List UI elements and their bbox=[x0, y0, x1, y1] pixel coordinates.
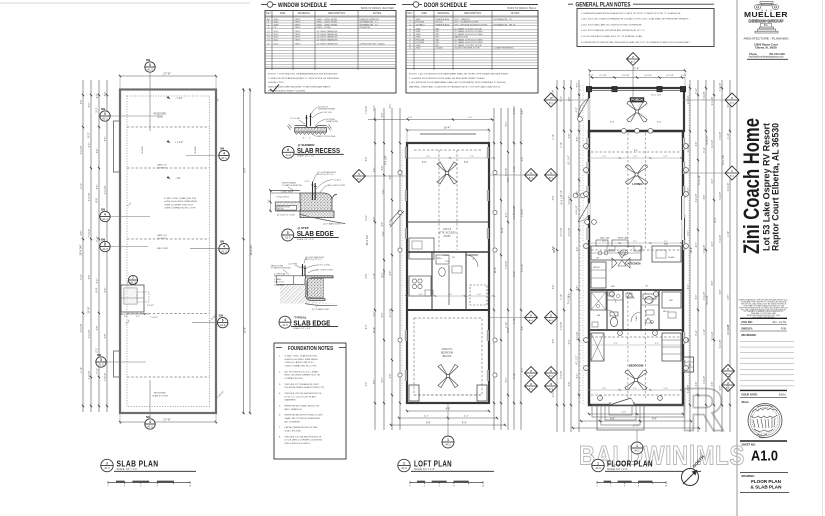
svg-text:1'-10": 1'-10" bbox=[561, 142, 563, 148]
svg-text:7'-4 1/8": 7'-4 1/8" bbox=[720, 83, 722, 92]
svg-text:3: 3 bbox=[106, 461, 108, 465]
svg-text:9'-0 1/4": 9'-0 1/4" bbox=[712, 332, 714, 341]
svg-text:A1.0: A1.0 bbox=[751, 448, 778, 465]
svg-text:MATERIAL, FINISH AND LOCATIONS: MATERIAL, FINISH AND LOCATIONS OF PASSAG… bbox=[409, 85, 501, 88]
svg-text:5'-0": 5'-0" bbox=[382, 273, 384, 278]
svg-text:6'-2": 6'-2" bbox=[614, 343, 618, 345]
svg-text:8'-6": 8'-6" bbox=[577, 137, 579, 142]
svg-text:5'-0": 5'-0" bbox=[688, 188, 690, 193]
svg-text:WD: WD bbox=[436, 39, 440, 41]
svg-text:2668: 2668 bbox=[416, 34, 422, 36]
svg-text:4'-3": 4'-3" bbox=[522, 368, 524, 373]
svg-text:2'-6": 2'-6" bbox=[569, 293, 571, 298]
svg-text:1'-10": 1'-10" bbox=[81, 367, 83, 373]
svg-text:TO MATCH EXISTING: TO MATCH EXISTING bbox=[282, 184, 303, 187]
svg-text:17'-8": 17'-8" bbox=[163, 418, 171, 422]
svg-text:8'-5 1/2": 8'-5 1/2" bbox=[513, 205, 516, 214]
svg-text:COMPACTED FILL: COMPACTED FILL bbox=[285, 377, 305, 380]
svg-text:SHALL BE CONTINUOUS AROUND: SHALL BE CONTINUOUS AROUND bbox=[285, 417, 321, 420]
svg-text:SIM: SIM bbox=[146, 59, 150, 62]
svg-text:2'-6": 2'-6" bbox=[374, 217, 376, 222]
svg-text:2'-6": 2'-6" bbox=[374, 168, 376, 173]
svg-text:(1) PANEL BI-FOLD DOORS: (1) PANEL BI-FOLD DOORS bbox=[455, 33, 484, 36]
svg-text:(CONT'D): (CONT'D) bbox=[157, 238, 167, 240]
svg-text:7'-4 1/8": 7'-4 1/8" bbox=[704, 92, 706, 101]
svg-text:6'-0": 6'-0" bbox=[633, 388, 637, 390]
svg-text:SCALE: 1/4" = 1'-0": SCALE: 1/4" = 1'-0" bbox=[117, 468, 138, 471]
svg-text:+ 1 1/2": + 1 1/2" bbox=[175, 141, 183, 144]
svg-text:A4.1: A4.1 bbox=[549, 176, 554, 179]
svg-text:(2) #5 BARS CONT: (2) #5 BARS CONT bbox=[323, 223, 341, 226]
svg-text:NOTES: NOTES bbox=[511, 12, 520, 15]
svg-text:OVER (1) LAYER 6 MIL POLY: OVER (1) LAYER 6 MIL POLY bbox=[285, 361, 315, 364]
svg-text:1: 1 bbox=[447, 438, 449, 442]
svg-text:FIBERGLASS: FIBERGLASS bbox=[436, 18, 450, 21]
svg-text:8'-4": 8'-4" bbox=[714, 217, 717, 222]
svg-text:A4.1: A4.1 bbox=[357, 177, 362, 180]
svg-text:8'-6": 8'-6" bbox=[97, 185, 99, 190]
svg-text:8'-1 1/4": 8'-1 1/4" bbox=[568, 155, 571, 164]
svg-text:1: 1 bbox=[654, 333, 655, 335]
svg-text:7'-4 1/8": 7'-4 1/8" bbox=[366, 106, 368, 115]
svg-text:7'-4 1/8": 7'-4 1/8" bbox=[561, 371, 563, 380]
svg-text:6: 6 bbox=[287, 148, 289, 152]
svg-text:Zini Coach Home: Zini Coach Home bbox=[739, 118, 764, 254]
svg-text:DOOR SCHEDULE: DOOR SCHEDULE bbox=[424, 2, 467, 9]
svg-text:7'-4 1/8": 7'-4 1/8" bbox=[506, 261, 508, 270]
svg-text:4'-6": 4'-6" bbox=[448, 294, 452, 296]
svg-text:2. ALL STUD SILL PLATES & FR: 2. ALL STUD SILL PLATES & FRAMING IN CON… bbox=[581, 18, 689, 21]
svg-text:W/TRANSOM - T3: W/TRANSOM - T3 bbox=[494, 18, 513, 21]
svg-text:LIVING: LIVING bbox=[632, 182, 643, 186]
svg-text:7'-2": 7'-2" bbox=[382, 231, 385, 236]
svg-text:SAW CUT: SAW CUT bbox=[157, 164, 168, 167]
svg-text:A1.0: A1.0 bbox=[221, 249, 227, 253]
svg-text:1: 1 bbox=[685, 146, 686, 148]
svg-text:SLAB @ DOOR: SLAB @ DOOR bbox=[152, 395, 168, 398]
svg-text:W/TRANSOM - T1: W/TRANSOM - T1 bbox=[360, 21, 379, 24]
svg-text:VINYL: VINYL bbox=[295, 37, 302, 39]
svg-text:9'-1 1/4": 9'-1 1/4" bbox=[385, 155, 388, 164]
svg-text:2'-6": 2'-6" bbox=[688, 338, 690, 343]
svg-text:WOOD: WOOD bbox=[436, 22, 443, 24]
svg-text:5'-0": 5'-0" bbox=[696, 295, 698, 300]
svg-text:A1.0: A1.0 bbox=[286, 153, 292, 157]
svg-text:MID POINT: MID POINT bbox=[157, 248, 169, 250]
svg-text:6/5/16: 6/5/16 bbox=[779, 392, 787, 396]
svg-text:IN TBL: IN TBL bbox=[278, 209, 284, 211]
svg-text:(1) PANEL POCKET DOOR: (1) PANEL POCKET DOOR bbox=[455, 44, 482, 47]
svg-text:SLOPE: SLOPE bbox=[142, 146, 144, 154]
svg-text:ISLAND: ISLAND bbox=[668, 256, 675, 259]
svg-text:4'-3 1/8": 4'-3 1/8" bbox=[644, 75, 652, 77]
svg-text:8'-6": 8'-6" bbox=[569, 382, 571, 387]
svg-text:36'-6": 36'-6" bbox=[690, 247, 693, 253]
svg-text:7'-2": 7'-2" bbox=[507, 177, 510, 182]
svg-text:BATH: BATH bbox=[437, 257, 442, 260]
svg-text:PANTRY: PANTRY bbox=[593, 266, 601, 269]
svg-text:3'-2 1/8": 3'-2 1/8" bbox=[712, 140, 714, 149]
svg-text:INC.: INC. bbox=[764, 25, 769, 27]
svg-text:BARN DOOR: BARN DOOR bbox=[455, 36, 469, 39]
svg-text:VINYL: VINYL bbox=[295, 27, 302, 29]
svg-text:6'-8": 6'-8" bbox=[81, 231, 83, 236]
svg-text:1: 1 bbox=[597, 461, 599, 465]
svg-text:5'-0": 5'-0" bbox=[366, 382, 368, 387]
svg-text:2'-6": 2'-6" bbox=[390, 374, 392, 379]
svg-text:GLASS SHOWER DOOR: GLASS SHOWER DOOR bbox=[455, 47, 480, 50]
svg-text:5'-1": 5'-1" bbox=[95, 347, 99, 352]
svg-text:4'-4": 4'-4" bbox=[424, 416, 429, 418]
svg-text:CL: CL bbox=[472, 259, 474, 261]
svg-text:w/6X6-10x10 WELD WIRE MESH: w/6X6-10x10 WELD WIRE MESH bbox=[285, 359, 318, 361]
svg-text:PJM: PJM bbox=[781, 326, 786, 330]
svg-text:SIZE: SIZE bbox=[421, 12, 427, 15]
svg-text:- 1/2": - 1/2" bbox=[175, 177, 181, 180]
svg-text:A1.0: A1.0 bbox=[147, 68, 153, 72]
svg-text:6'-2": 6'-2" bbox=[655, 343, 659, 345]
svg-text:W/TRANSOM - PR T3: W/TRANSOM - PR T3 bbox=[494, 23, 516, 26]
svg-text:1'-10": 1'-10" bbox=[561, 294, 563, 300]
svg-text:1: 1 bbox=[599, 398, 600, 400]
svg-text:& SLAB PLAN: & SLAB PLAN bbox=[751, 485, 783, 490]
svg-text:4'-1 5/8": 4'-1 5/8" bbox=[666, 75, 674, 77]
svg-text:AC: AC bbox=[267, 18, 270, 21]
svg-text:6'-1 1/2": 6'-1 1/2" bbox=[576, 355, 579, 364]
svg-text:VINYL: VINYL bbox=[295, 24, 302, 26]
svg-text:8'-2": 8'-2" bbox=[87, 132, 91, 137]
svg-text:ARCHITECTURE - PLANNING: ARCHITECTURE - PLANNING bbox=[744, 37, 790, 41]
svg-text:7'-4 1/8": 7'-4 1/8" bbox=[720, 132, 722, 141]
svg-text:10'-0" CLG: 10'-0" CLG bbox=[651, 94, 662, 96]
svg-text:6'-8": 6'-8" bbox=[712, 382, 714, 387]
svg-text:1x2 TRIM: 1x2 TRIM bbox=[288, 263, 297, 265]
svg-text:BASIS OF DESIGN: PELLA: BASIS OF DESIGN: PELLA bbox=[508, 7, 537, 10]
svg-text:PR 1668: PR 1668 bbox=[416, 39, 425, 41]
svg-text:VINYL: VINYL bbox=[295, 34, 302, 36]
svg-text:SIM: SIM bbox=[97, 354, 101, 357]
svg-text:5'-0": 5'-0" bbox=[728, 103, 730, 108]
svg-text:COR. FILL: COR. FILL bbox=[323, 112, 333, 114]
svg-text:KITCHEN: KITCHEN bbox=[628, 262, 641, 266]
svg-text:ANL CONST JOINT: ANL CONST JOINT bbox=[327, 184, 345, 187]
svg-text:3. ALL STUD WALL ARE 2X4, UN: 3. ALL STUD WALL ARE 2X4, UNLESS NOTED O… bbox=[581, 23, 643, 26]
svg-text:SNGL - SNGL HUNG: SNGL - SNGL HUNG bbox=[317, 24, 338, 26]
svg-text:3'-2 1/8": 3'-2 1/8" bbox=[553, 389, 555, 398]
svg-text:5'-0": 5'-0" bbox=[506, 122, 508, 127]
svg-text:8'-6": 8'-6" bbox=[366, 157, 368, 162]
svg-text:3'-2 1/8": 3'-2 1/8" bbox=[569, 228, 571, 237]
svg-text:1: 1 bbox=[685, 194, 686, 196]
svg-text:A1.0: A1.0 bbox=[130, 281, 136, 285]
svg-text:5'-0": 5'-0" bbox=[382, 378, 384, 383]
svg-text:6'-8": 6'-8" bbox=[569, 134, 571, 139]
svg-text:PORCH: PORCH bbox=[631, 98, 643, 102]
svg-text:2'-6": 2'-6" bbox=[81, 100, 83, 105]
svg-text:MUELLER: MUELLER bbox=[744, 10, 788, 19]
svg-text:4" MIN. CONC. SLAB (2500 PSI): 4" MIN. CONC. SLAB (2500 PSI) bbox=[164, 197, 196, 200]
svg-text:MATERIAL: MATERIAL bbox=[298, 12, 311, 15]
svg-text:3038: 3038 bbox=[274, 24, 280, 26]
svg-text:(1) PANEL BI-FOLD DOORS: (1) PANEL BI-FOLD DOORS bbox=[455, 38, 484, 41]
svg-text:A1.0: A1.0 bbox=[102, 247, 108, 251]
svg-text:2'-6": 2'-6" bbox=[696, 142, 698, 147]
svg-text:5'-2": 5'-2" bbox=[602, 156, 606, 158]
svg-text:8'-8": 8'-8" bbox=[610, 418, 615, 421]
svg-text:1: 1 bbox=[585, 340, 586, 342]
svg-text:17'-4": 17'-4" bbox=[633, 66, 640, 70]
svg-text:1'-10": 1'-10" bbox=[728, 324, 730, 330]
svg-text:A1.0: A1.0 bbox=[102, 217, 108, 221]
svg-text:12'-4": 12'-4" bbox=[373, 327, 376, 333]
svg-text:COMP. FILL: COMP. FILL bbox=[274, 285, 284, 287]
svg-text:SIM: SIM bbox=[220, 241, 224, 244]
svg-text:WD: WD bbox=[436, 31, 440, 33]
svg-text:1 1/2": 1 1/2" bbox=[588, 75, 594, 77]
svg-text:VINYL: VINYL bbox=[295, 31, 302, 33]
svg-text:FIBERGLASS: FIBERGLASS bbox=[436, 23, 450, 26]
svg-text:A4.1: A4.1 bbox=[631, 60, 636, 63]
svg-text:PROVIDE LIFTCHL ANCHOR BOLTS: PROVIDE LIFTCHL ANCHOR BOLTS bbox=[285, 392, 322, 395]
svg-text:A1.0: A1.0 bbox=[401, 466, 407, 470]
svg-text:4'-3": 4'-3" bbox=[382, 313, 384, 318]
svg-text:8'-6": 8'-6" bbox=[105, 288, 107, 293]
svg-text:DESCRIPTION: DESCRIPTION bbox=[328, 12, 345, 15]
svg-text:A4.1: A4.1 bbox=[730, 174, 735, 177]
svg-text:REVISIONS:: REVISIONS: bbox=[742, 333, 757, 337]
svg-text:A615, GRADE 60.: A615, GRADE 60. bbox=[285, 408, 303, 411]
svg-text:A4.1: A4.1 bbox=[549, 101, 554, 104]
svg-text:6: 6 bbox=[222, 318, 224, 322]
svg-text:9'-0 1/4": 9'-0 1/4" bbox=[561, 228, 563, 237]
svg-text:ALL CORNERS.: ALL CORNERS. bbox=[285, 420, 301, 423]
svg-text:VINYL: VINYL bbox=[295, 22, 302, 24]
svg-text:CONC. STEP: CONC. STEP bbox=[281, 192, 294, 194]
svg-text:3. ALL INTERIOR DOOR HARDWAR: 3. ALL INTERIOR DOOR HARDWARE SHALL BE C… bbox=[409, 81, 506, 84]
svg-text:5'-8": 5'-8" bbox=[602, 388, 606, 390]
svg-text:5'-2": 5'-2" bbox=[664, 156, 668, 158]
svg-text:6 MIL POLY: 6 MIL POLY bbox=[274, 281, 285, 283]
svg-text:3044: 3044 bbox=[274, 22, 280, 24]
svg-text:3'-11": 3'-11" bbox=[81, 274, 83, 280]
svg-text:MATERIAL: MATERIAL bbox=[437, 12, 450, 15]
svg-text:SNGL - SNGL HUNG: SNGL - SNGL HUNG bbox=[317, 22, 338, 24]
svg-text:8'-6": 8'-6" bbox=[89, 275, 91, 280]
svg-text:6'-8": 6'-8" bbox=[366, 274, 368, 279]
svg-text:WD: WD bbox=[436, 34, 440, 36]
svg-text:6'-8": 6'-8" bbox=[105, 241, 107, 246]
svg-text:4'-0": 4'-0" bbox=[622, 412, 626, 414]
svg-text:12'-4": 12'-4" bbox=[501, 227, 504, 233]
svg-text:(CONT'D): (CONT'D) bbox=[157, 168, 167, 170]
svg-text:5'-0": 5'-0" bbox=[374, 312, 376, 317]
svg-text:SNGL - SNGL HUNG: SNGL - SNGL HUNG bbox=[317, 19, 338, 21]
svg-text:FLOOR PLAN: FLOOR PLAN bbox=[751, 479, 782, 484]
svg-text:PROVIDE 1/2" EXPANSION JOINT: PROVIDE 1/2" EXPANSION JOINT bbox=[285, 383, 320, 386]
svg-text:9'-0 1/4": 9'-0 1/4" bbox=[514, 106, 516, 115]
svg-text:3050: 3050 bbox=[274, 19, 280, 21]
svg-text:2'-6": 2'-6" bbox=[514, 215, 516, 220]
svg-text:1'-10": 1'-10" bbox=[561, 190, 563, 196]
svg-text:A4.1: A4.1 bbox=[529, 387, 534, 390]
svg-text:@ COLUMN & CORNER LOCATIONS: @ COLUMN & CORNER LOCATIONS bbox=[285, 439, 323, 442]
svg-text:1'-10": 1'-10" bbox=[514, 373, 516, 379]
svg-text:7'-4 1/8": 7'-4 1/8" bbox=[720, 235, 722, 244]
svg-text:NOTES: 1. FOR WINDOW LITE: NOTES: 1. FOR WINDOW LITE ARRANGEMENTS S… bbox=[268, 73, 338, 76]
svg-text:P.T. 2x SILL: P.T. 2x SILL bbox=[331, 179, 342, 181]
svg-text:OVER COMPACTED FILL (TYP): OVER COMPACTED FILL (TYP) bbox=[285, 365, 317, 368]
svg-text:WASHERS.: WASHERS. bbox=[285, 399, 297, 402]
svg-text:DIVIDED LITES: DIVIDED LITES bbox=[268, 82, 284, 84]
svg-text:36'-6 3/4": 36'-6 3/4" bbox=[249, 244, 253, 255]
svg-text:9'-2": 9'-2" bbox=[633, 241, 637, 243]
svg-text:2668: 2668 bbox=[416, 45, 422, 47]
svg-text:FILE NO:: FILE NO: bbox=[742, 320, 753, 324]
svg-text:14" HIGH TRANSOM: 14" HIGH TRANSOM bbox=[317, 30, 338, 33]
svg-text:8'-6": 8'-6" bbox=[462, 422, 467, 425]
svg-text:36'-1 1/4": 36'-1 1/4" bbox=[366, 235, 369, 246]
svg-text:3'-2 1/8": 3'-2 1/8" bbox=[688, 385, 690, 394]
svg-text:A4.1: A4.1 bbox=[529, 176, 534, 179]
svg-text:1: 1 bbox=[585, 170, 586, 172]
svg-text:5'-0": 5'-0" bbox=[89, 143, 91, 148]
svg-text:5'-0": 5'-0" bbox=[89, 103, 91, 108]
svg-text:4'-1 5/8": 4'-1 5/8" bbox=[599, 75, 607, 77]
svg-text:4: 4 bbox=[223, 151, 225, 155]
svg-text:9'-2 1/8": 9'-2 1/8" bbox=[706, 295, 709, 304]
svg-text:8'-6": 8'-6" bbox=[105, 137, 107, 142]
svg-text:3'-11": 3'-11" bbox=[97, 236, 99, 242]
svg-text:2'-6": 2'-6" bbox=[577, 191, 579, 196]
svg-text:A1.0: A1.0 bbox=[282, 323, 288, 327]
svg-text:9'-0 1/4": 9'-0 1/4" bbox=[712, 97, 714, 106]
svg-text:5'-0": 5'-0" bbox=[577, 374, 579, 379]
svg-text:9'-0 1/4": 9'-0 1/4" bbox=[728, 183, 730, 192]
svg-text:1: 1 bbox=[585, 246, 586, 248]
svg-text:4'-4 1/4": 4'-4 1/4" bbox=[576, 205, 579, 214]
svg-text:7'-4 1/8": 7'-4 1/8" bbox=[522, 209, 524, 218]
svg-text:4'-6": 4'-6" bbox=[419, 294, 423, 296]
svg-text:SNGL - FIXED: SNGL - FIXED bbox=[317, 27, 332, 29]
svg-text:OVER COMPACTED FILL (TYP): OVER COMPACTED FILL (TYP) bbox=[164, 207, 196, 210]
svg-text:EXT - PR 3068 SLIDING DOORS: EXT - PR 3068 SLIDING DOORS bbox=[455, 24, 488, 26]
svg-text:3012: 3012 bbox=[274, 37, 280, 39]
svg-text:3'-2": 3'-2" bbox=[95, 107, 99, 112]
svg-text:8'-6": 8'-6" bbox=[382, 222, 384, 227]
svg-text:10 PATIO: 10 PATIO bbox=[416, 23, 426, 26]
svg-text:WD: WD bbox=[436, 28, 440, 30]
svg-text:10'-8": 10'-8" bbox=[87, 307, 91, 314]
svg-text:REINFORCING IN FOOTINGS & CMU: REINFORCING IN FOOTINGS & CMU bbox=[285, 415, 323, 417]
svg-text:8'-8": 8'-8" bbox=[426, 422, 431, 425]
svg-text:1: 1 bbox=[619, 333, 620, 335]
svg-text:16'-4": 16'-4" bbox=[444, 126, 451, 130]
svg-text:8'-8": 8'-8" bbox=[657, 122, 662, 124]
svg-text:A4.1: A4.1 bbox=[549, 319, 554, 322]
svg-text:4'-3": 4'-3" bbox=[506, 213, 508, 218]
svg-text:SLOPE: SLOPE bbox=[195, 146, 197, 154]
svg-text:3'-11": 3'-11" bbox=[696, 88, 698, 94]
svg-text:251-210-1100: 251-210-1100 bbox=[769, 53, 785, 56]
svg-text:4'-3": 4'-3" bbox=[97, 94, 99, 99]
svg-text:2. WINDOW UNITS ARE REQUIRED: 2. WINDOW UNITS ARE REQUIRED TO TRUE DIV… bbox=[268, 77, 340, 80]
svg-text:5: 5 bbox=[100, 358, 102, 362]
svg-text:6'-8": 6'-8" bbox=[97, 326, 99, 331]
svg-text:A1.0: A1.0 bbox=[221, 156, 227, 160]
svg-text:DRAWING:: DRAWING: bbox=[742, 474, 756, 478]
svg-text:A1.0: A1.0 bbox=[147, 425, 153, 429]
svg-text:3068: 3068 bbox=[416, 19, 422, 21]
svg-text:5: 5 bbox=[287, 231, 289, 235]
svg-text:4'-3": 4'-3" bbox=[390, 221, 392, 226]
svg-text:A1.0: A1.0 bbox=[104, 466, 110, 470]
svg-text:w/6X6-10x10 WELD WIRE MESH: w/6X6-10x10 WELD WIRE MESH bbox=[164, 201, 197, 203]
svg-text:1: 1 bbox=[685, 170, 686, 172]
svg-text:KEY: KEY bbox=[407, 12, 412, 15]
svg-text:BOLTS @ 32" O.C.: BOLTS @ 32" O.C. bbox=[305, 259, 323, 261]
svg-text:3'-11": 3'-11" bbox=[561, 96, 563, 102]
svg-text:4" MIN. CONC. SLAB (2500 PSI): 4" MIN. CONC. SLAB (2500 PSI) bbox=[285, 355, 317, 358]
svg-text:2'-6": 2'-6" bbox=[553, 285, 555, 290]
svg-text:4'-3": 4'-3" bbox=[712, 179, 714, 184]
svg-text:2668: 2668 bbox=[416, 37, 422, 39]
svg-text:4: 4 bbox=[149, 420, 151, 424]
svg-text:4'-4": 4'-4" bbox=[464, 416, 469, 418]
svg-text:P.T. 2x SILL: P.T. 2x SILL bbox=[290, 118, 301, 120]
svg-text:6'-8": 6'-8" bbox=[720, 386, 722, 391]
svg-text:8'-6": 8'-6" bbox=[577, 286, 579, 291]
svg-text:3'-2 1/8": 3'-2 1/8" bbox=[720, 340, 722, 349]
svg-text:1: 1 bbox=[611, 294, 612, 296]
svg-text:1. DIMENSIONS ARE FROM SLAB: 1. DIMENSIONS ARE FROM SLAB EDGE TO FACE… bbox=[581, 12, 681, 15]
svg-text:BASIS OF DESIGN: JELD-WEN: BASIS OF DESIGN: JELD-WEN bbox=[361, 7, 394, 10]
svg-text:SCALE: 1/4" = 1'-0": SCALE: 1/4" = 1'-0" bbox=[607, 468, 628, 471]
svg-text:2'-6": 2'-6" bbox=[97, 149, 99, 154]
svg-text:9'-0 1/4": 9'-0 1/4" bbox=[105, 186, 107, 195]
svg-text:1: 1 bbox=[685, 246, 686, 248]
svg-text:11'-2 1/8": 11'-2 1/8" bbox=[698, 175, 701, 185]
svg-text:1: 1 bbox=[585, 194, 586, 196]
svg-text:WD: WD bbox=[436, 42, 440, 44]
svg-text:3'-11": 3'-11" bbox=[514, 271, 516, 277]
svg-text:FOUNDATION NOTES: FOUNDATION NOTES bbox=[288, 346, 333, 352]
svg-text:RANGE: RANGE bbox=[627, 245, 634, 248]
svg-text:SLAB EDGE: SLAB EDGE bbox=[297, 229, 334, 238]
svg-text:7'-4": 7'-4" bbox=[470, 156, 474, 158]
svg-text:9'-0 1/4": 9'-0 1/4" bbox=[390, 309, 392, 318]
svg-text:DESCRIPTION: DESCRIPTION bbox=[464, 12, 481, 15]
svg-text:3'-2 1/8": 3'-2 1/8" bbox=[522, 264, 524, 273]
svg-text:1: 1 bbox=[585, 368, 586, 370]
svg-text:10'-8": 10'-8" bbox=[243, 327, 247, 334]
svg-text:2068: 2068 bbox=[416, 31, 422, 33]
svg-text:PER S-SHD.B & S-SHD.D: PER S-SHD.B & S-SHD.D bbox=[285, 443, 311, 445]
svg-text:7: 7 bbox=[132, 276, 134, 280]
svg-text:ALL FOOTINGS & S.O.G.'s SHALL: ALL FOOTINGS & S.O.G.'s SHALL bbox=[285, 370, 320, 373]
svg-text:GENERAL PLAN NOTES: GENERAL PLAN NOTES bbox=[576, 2, 632, 9]
svg-text:1'-10": 1'-10" bbox=[728, 231, 730, 237]
svg-text:EXT - FRENCH: EXT - FRENCH bbox=[455, 19, 471, 21]
svg-text:3'-2 1/8": 3'-2 1/8" bbox=[89, 193, 91, 202]
svg-text:2'-0": 2'-0" bbox=[408, 117, 413, 119]
svg-text:14" HIGH TRANSOM: 14" HIGH TRANSOM bbox=[317, 33, 338, 36]
svg-text:BELOW: BELOW bbox=[443, 355, 452, 358]
svg-text:8'-8": 8'-8" bbox=[610, 122, 615, 124]
svg-text:2'-6": 2'-6" bbox=[696, 382, 698, 387]
svg-text:(1) PANEL BI-FOLD DOORS: (1) PANEL BI-FOLD DOORS bbox=[455, 30, 484, 33]
svg-text:9'-0 1/4": 9'-0 1/4" bbox=[688, 96, 690, 105]
svg-text:2'-6": 2'-6" bbox=[569, 97, 571, 102]
